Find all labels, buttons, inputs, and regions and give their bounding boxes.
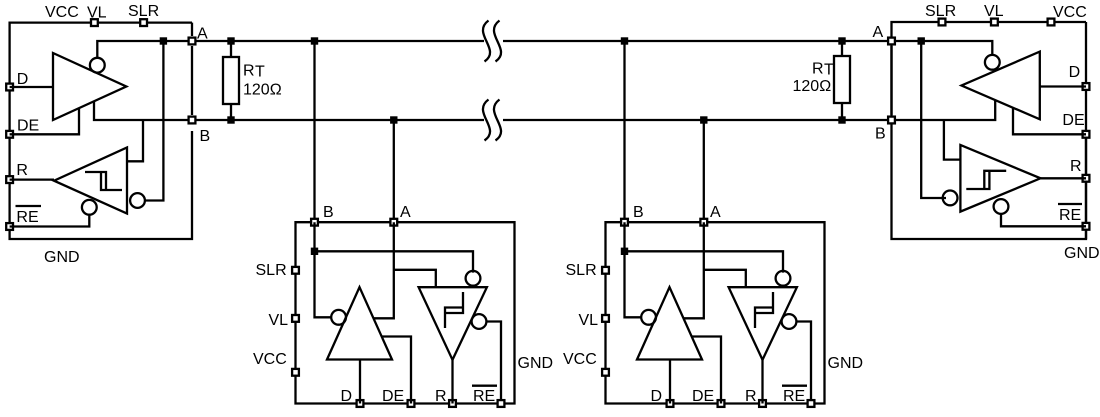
svg-text:SLR: SLR — [925, 3, 956, 20]
terminal VCC (U2 left) — [292, 369, 299, 376]
label R (U1) — [16, 162, 28, 179]
receiver R3 hysteresis symbol (U3) — [755, 292, 773, 328]
wire U3 A terminal down to driver — [684, 222, 704, 318]
svg-text:120Ω: 120Ω — [243, 82, 282, 99]
label D (U1) — [17, 71, 29, 88]
terminal VL (U1 top) — [91, 19, 98, 26]
svg-text:GND: GND — [828, 355, 864, 372]
node: RT-right bottom junction on B — [838, 116, 845, 123]
wire bus line B (bottom), left segment — [192, 119, 484, 121]
terminal R (U2 bottom) — [449, 400, 456, 407]
node junction on A wire (U4) — [918, 37, 925, 44]
label D (U2) — [341, 388, 353, 405]
label A (U3) — [710, 204, 721, 221]
wire bubble to A line (U1) — [97, 41, 192, 58]
svg-text:T: T — [255, 64, 265, 81]
label DE (U4) — [1062, 112, 1084, 129]
svg-text:VL: VL — [87, 5, 107, 22]
label D (U4) — [1069, 64, 1081, 81]
wire DE up to driver side (U2) — [382, 337, 411, 404]
bus break symbol on line A — [483, 21, 501, 62]
label R (U4) — [1070, 158, 1082, 175]
label DE (U1) — [17, 118, 39, 135]
label B (U3) — [633, 204, 644, 221]
terminal A (U4) — [888, 38, 895, 45]
terminal VCC (U4 top) — [1048, 19, 1055, 26]
node junction on A wire (U1) — [160, 37, 167, 44]
U3 outer wire frame — [606, 222, 825, 403]
value 120&#937; (right) — [793, 78, 832, 95]
wire bus line A (top), right segment — [503, 40, 892, 42]
U2 outer wire frame — [296, 222, 515, 403]
svg-text:DE: DE — [692, 388, 714, 405]
wire RE to enable bubble (U1) — [10, 214, 90, 227]
svg-text:B: B — [323, 204, 334, 221]
label RE with overline (U2) — [472, 386, 497, 405]
label B (U4) — [875, 126, 886, 143]
label GND (U4) — [1064, 245, 1100, 262]
terminal R (U3 bottom) — [759, 400, 766, 407]
driver D2 triangle (U2) — [327, 287, 392, 359]
terminal R (U1) — [6, 176, 13, 183]
terminal SLR (U1 top) — [140, 19, 147, 26]
label SLR (U1) — [128, 3, 159, 20]
receiver R2 enable bubble (U2) — [472, 314, 487, 329]
terminal VL (U4 top) — [991, 19, 998, 26]
svg-text:R: R — [812, 61, 824, 78]
bus break symbol on line B — [483, 100, 501, 141]
receiver R4 enable bubble (U4) — [994, 199, 1009, 214]
terminal R (U4) — [1083, 175, 1090, 182]
terminal B (U2 top) — [311, 219, 318, 226]
wire U3 terminal B up to bus line A — [623, 41, 625, 222]
node U3 B-tap junction on bus A — [621, 37, 628, 44]
terminal D (U3 bottom) — [667, 400, 674, 407]
wire R to receiver apex (U3) — [761, 360, 763, 404]
receiver R3 enable bubble (U3) — [782, 314, 797, 329]
wire B line down to receiver input (U4) — [944, 120, 961, 160]
wire driver output to B line (U4) — [892, 100, 996, 120]
label RT (left) — [243, 63, 265, 81]
U4 outer wire frame — [892, 22, 1087, 239]
terminal DE (U2 bottom) — [408, 400, 415, 407]
terminal B (U4) — [888, 117, 895, 124]
wire bubble to A line (U4) — [892, 41, 993, 55]
wire D to driver base (U3) — [669, 360, 671, 404]
terminal SLR (U2 left) — [292, 267, 299, 274]
terminal D (U2 bottom) — [357, 400, 364, 407]
wire U2 terminal B up to bus line A — [313, 41, 315, 222]
wire U2 enable bubble to RE — [486, 322, 501, 404]
svg-text:DE: DE — [1062, 112, 1084, 129]
U4 right edge R to RE — [1085, 183, 1087, 222]
label GND (U1) — [44, 249, 80, 266]
receiver R3 top bubble (U3) — [776, 271, 791, 286]
wire U3 terminal A up to bus line B — [703, 120, 705, 222]
node: RT-left bottom junction on B — [227, 116, 234, 123]
terminal DE (U3 bottom) — [718, 400, 725, 407]
terminal VL (U2 left) — [292, 315, 299, 322]
resistor RT (left termination) — [223, 41, 239, 120]
label RE with overline (U3) — [782, 386, 807, 405]
label R (U2) — [435, 388, 447, 405]
wire A-junction down to receiver bubble (U4) — [921, 41, 946, 198]
wire DE to driver (U4) — [1013, 108, 1086, 135]
U4 right edge RE to GND rail — [1085, 231, 1087, 239]
terminal D (U4) — [1083, 83, 1090, 90]
wire D to driver base (U2) — [359, 360, 361, 404]
svg-text:VCC: VCC — [253, 351, 287, 368]
svg-text:D: D — [17, 71, 29, 88]
svg-text:R: R — [16, 162, 28, 179]
node: RT-right top junction on A — [838, 37, 845, 44]
label VL (U1) — [87, 5, 107, 22]
receiver R2 hysteresis symbol (U2) — [445, 292, 463, 328]
node U2 A-tap junction on bus B — [390, 116, 397, 123]
terminal SLR (U4 top) — [939, 19, 946, 26]
label VL (U4) — [984, 3, 1004, 20]
driver D3 triangle (U3) — [637, 287, 702, 359]
label R (U3) — [745, 388, 757, 405]
label RT (right) — [812, 61, 834, 79]
svg-text:A: A — [873, 24, 884, 41]
wire A-junction down to receiver bubble (U1) — [145, 41, 163, 201]
wire U2 B junction to receiver top bubble — [315, 251, 474, 272]
label A (U4) — [873, 24, 884, 41]
label RE with overline (U1) — [16, 206, 42, 226]
U4 left edge between A and B — [890, 46, 892, 115]
label DE (U3) — [692, 388, 714, 405]
U1 outer wire frame — [10, 23, 192, 239]
wire RE to enable bubble (U4) — [1001, 213, 1086, 226]
svg-text:A: A — [400, 204, 411, 221]
wire D to driver (U1) — [10, 86, 53, 88]
label B (U1) — [200, 128, 211, 145]
label A (U1) — [197, 26, 208, 43]
svg-text:SLR: SLR — [256, 262, 287, 279]
terminal VCC (U3 left) — [602, 369, 609, 376]
node U3 A-tap junction on bus B — [700, 116, 707, 123]
svg-text:SLR: SLR — [128, 3, 159, 20]
U4 right edge D to DE — [1085, 91, 1087, 130]
wire D to driver (U4) — [1040, 85, 1086, 87]
svg-text:R: R — [1070, 158, 1082, 175]
terminal RE (U1) — [6, 223, 13, 230]
receiver R1 enable bubble (U1) — [82, 200, 97, 215]
terminal D (U1) — [6, 84, 13, 91]
wire DE to driver (U1) — [10, 108, 79, 134]
label VL (U3) — [579, 312, 599, 329]
terminal VL (U3 left) — [602, 315, 609, 322]
wire driver output to B line (U1) — [94, 101, 192, 120]
wire U3 B terminal down and to driver bubble — [625, 222, 642, 317]
receiver R2 triangle (U2) — [419, 287, 487, 360]
svg-text:GND: GND — [1064, 245, 1100, 262]
label D (U3) — [651, 388, 663, 405]
driver D1 inverting bubble (U1) — [90, 58, 105, 73]
driver D3 inverting bubble (U3) — [641, 310, 656, 325]
svg-text:R: R — [435, 388, 447, 405]
svg-text:R: R — [243, 63, 255, 80]
svg-text:B: B — [875, 126, 886, 143]
wire U2 A wire branch to receiver input — [394, 270, 436, 287]
node: RT-left top junction on A — [227, 37, 234, 44]
label SLR (U4) — [925, 3, 956, 20]
wire bus line B (bottom), right segment — [503, 119, 892, 121]
svg-text:SLR: SLR — [566, 262, 597, 279]
svg-text:120Ω: 120Ω — [793, 78, 832, 95]
label SLR (U2) — [256, 262, 287, 279]
svg-text:RE: RE — [16, 209, 38, 226]
svg-text:D: D — [341, 388, 353, 405]
label B (U2) — [323, 204, 334, 221]
svg-text:D: D — [1069, 64, 1081, 81]
terminal RE (U2 bottom) — [498, 400, 505, 407]
svg-text:VCC: VCC — [563, 351, 597, 368]
U1 right edge between A and B — [191, 46, 193, 115]
receiver R4 triangle (U4) — [960, 145, 1040, 212]
wire R to receiver output (U1) — [10, 178, 54, 180]
driver D1 triangle (U1) — [53, 53, 126, 120]
terminal A (U3 top) — [700, 219, 707, 226]
svg-text:DE: DE — [382, 388, 404, 405]
label VCC (U1) — [45, 4, 79, 21]
wire U3 A wire branch to receiver input — [704, 270, 746, 287]
label RE with overline (U4) — [1058, 204, 1082, 224]
node U3 junction on B internal wire — [621, 248, 628, 255]
node U2 B-tap junction on bus A — [311, 37, 318, 44]
svg-text:D: D — [651, 388, 663, 405]
terminal A (U1) — [189, 38, 196, 45]
node U2 junction on B internal wire — [311, 248, 318, 255]
terminal RE (U4) — [1083, 223, 1090, 230]
terminal DE (U1) — [6, 131, 13, 138]
resistor RT (right termination) — [834, 41, 850, 120]
svg-text:VL: VL — [984, 3, 1004, 20]
svg-text:RE: RE — [1059, 207, 1081, 224]
svg-text:GND: GND — [44, 249, 80, 266]
terminal SLR (U3 left) — [602, 267, 609, 274]
wire U2 terminal A up to bus line B — [393, 120, 395, 222]
terminal A (U2 top) — [390, 219, 397, 226]
receiver R1 side bubble (U1) — [130, 193, 145, 208]
svg-text:T: T — [824, 62, 834, 79]
label DE (U2) — [382, 388, 404, 405]
label VL (U2) — [269, 312, 289, 329]
receiver R2 top bubble (U2) — [466, 271, 481, 286]
svg-text:VL: VL — [269, 312, 289, 329]
driver D4 inverting bubble (U4) — [985, 55, 1000, 70]
U4 right edge DE to R — [1085, 139, 1087, 174]
U4 right edge between top rail and D — [1085, 22, 1087, 82]
wire U3 enable bubble to RE — [796, 322, 811, 404]
label VCC (U4) — [1053, 4, 1087, 21]
wire U3 B junction to receiver top bubble — [625, 251, 784, 272]
svg-text:VCC: VCC — [1053, 4, 1087, 21]
svg-text:R: R — [745, 388, 757, 405]
svg-text:B: B — [633, 204, 644, 221]
U1 right edge between top rail and A — [191, 23, 193, 36]
svg-text:VL: VL — [579, 312, 599, 329]
svg-text:RE: RE — [473, 388, 495, 405]
terminal B (U1) — [189, 117, 196, 124]
label VCC (U2) — [253, 351, 287, 368]
wire R to receiver apex (U2) — [451, 360, 453, 404]
receiver R4 side bubble (U4) — [943, 191, 958, 206]
svg-text:A: A — [710, 204, 721, 221]
terminal B (U3 top) — [621, 219, 628, 226]
svg-text:A: A — [197, 26, 208, 43]
label GND (U3) — [828, 355, 864, 372]
svg-text:B: B — [200, 128, 211, 145]
svg-text:GND: GND — [518, 355, 554, 372]
svg-text:VCC: VCC — [45, 4, 79, 21]
wire U2 B terminal down and to driver bubble — [315, 222, 332, 317]
svg-text:DE: DE — [17, 118, 39, 135]
wire R to receiver output (U4) — [1041, 177, 1087, 179]
svg-text:RE: RE — [783, 388, 805, 405]
driver D2 inverting bubble (U2) — [331, 310, 346, 325]
terminal RE (U3 bottom) — [808, 400, 815, 407]
driver D4 triangle (U4) — [962, 52, 1040, 120]
wire bus line A (top), left segment — [192, 40, 484, 42]
receiver R3 triangle (U3) — [729, 287, 797, 360]
wire B line down to receiver input (U1) — [127, 120, 143, 161]
label A (U2) — [400, 204, 411, 221]
terminal DE (U4) — [1083, 131, 1090, 138]
label GND (U2) — [518, 355, 554, 372]
receiver R4 hysteresis symbol (U4) — [966, 171, 1006, 189]
receiver R1 hysteresis symbol (U1) — [85, 172, 122, 190]
value 120&#937; (left) — [243, 82, 282, 99]
receiver R1 triangle (U1) — [54, 148, 127, 214]
label VCC (U3) — [563, 351, 597, 368]
wire U2 A terminal down to driver — [374, 222, 394, 318]
wire DE up to driver side (U3) — [692, 337, 721, 404]
label SLR (U3) — [566, 262, 597, 279]
